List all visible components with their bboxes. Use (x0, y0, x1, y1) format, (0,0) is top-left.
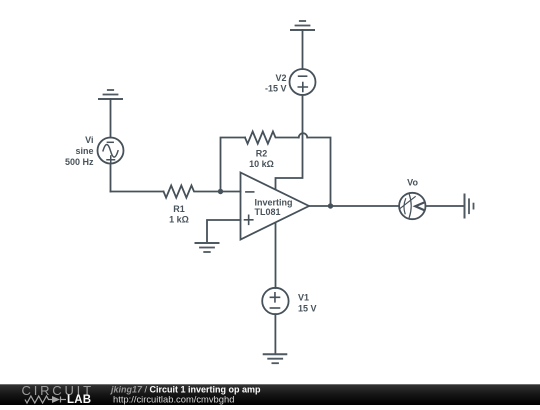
svg-text:http://circuitlab.com/cmvbghd: http://circuitlab.com/cmvbghd (113, 393, 234, 404)
svg-text:Vi: Vi (85, 135, 93, 145)
svg-text:-15 V: -15 V (265, 83, 287, 93)
svg-text:V1: V1 (298, 293, 309, 303)
svg-text:LAB: LAB (67, 394, 91, 405)
svg-text:10 kΩ: 10 kΩ (249, 159, 274, 169)
svg-text:TL081: TL081 (255, 207, 281, 217)
svg-text:sine: sine (75, 146, 93, 156)
svg-text:15 V: 15 V (298, 304, 317, 314)
svg-text:R2: R2 (256, 148, 268, 158)
svg-text:500 Hz: 500 Hz (65, 157, 94, 167)
svg-text:Inverting: Inverting (255, 197, 293, 207)
svg-text:Vo: Vo (407, 177, 418, 187)
svg-text:R1: R1 (173, 204, 185, 214)
svg-text:V2: V2 (275, 73, 286, 83)
svg-text:1 kΩ: 1 kΩ (169, 215, 189, 225)
